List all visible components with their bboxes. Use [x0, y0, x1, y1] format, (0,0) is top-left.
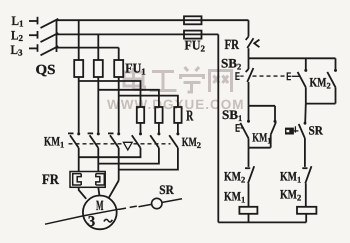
- contactor KM2 main contact 3: [169, 132, 179, 148]
- wire branch phase2 to resistor 2: [98, 90, 159, 107]
- node L2 terminal: [29, 31, 38, 39]
- 工: [152, 70, 174, 73]
- wire branch phase3 to resistor 3: [119, 96, 178, 107]
- wire KM1 pole2 down to FR: [97, 148, 99, 172]
- wire KM1 pole3 down past FR: [118, 148, 120, 181]
- wire branch phase1 to resistor 1: [79, 81, 141, 107]
- contactor KM1 main contact 2: [88, 132, 100, 148]
- motor M 3~: [83, 196, 117, 230]
- resistor R pole 2: [155, 107, 162, 123]
- resistor R pole 3: [174, 107, 181, 123]
- bus line L3: [57, 47, 119, 49]
- coil KM2: [297, 207, 316, 214]
- FR heater element 2: [96, 174, 105, 185]
- contactor KM1 main contact 1: [68, 132, 80, 148]
- switch QS: [41, 19, 59, 56]
- resistor R pole 1: [137, 107, 144, 123]
- button SB1 actuator E: [236, 125, 244, 132]
- fuse FU1 pole 3: [114, 60, 123, 77]
- svg-text:M: M: [96, 199, 103, 214]
- svg-text:QS: QS: [36, 63, 56, 78]
- wire KM2 aux join: [306, 103, 336, 105]
- wire to motor phase C: [108, 181, 119, 199]
- button SB1 NO contact: [240, 106, 250, 148]
- motor shaft line: [45, 209, 119, 224]
- svg-text:3: 3: [88, 214, 95, 230]
- wire KM2 pole2 crossover to phase B: [98, 148, 159, 164]
- button SB2 dashed linkage: [253, 75, 288, 77]
- fuse FU1 pole 1: [74, 60, 83, 77]
- contactor KM1 NC interlock contact: [302, 166, 311, 207]
- node L3 terminal: [29, 44, 38, 52]
- thermal relay FR NC contact: [246, 37, 260, 59]
- fuse FU2 pole 2: [184, 31, 202, 39]
- mechanical link dashed line KM1-KM2: [69, 143, 171, 145]
- wire SB1 branch node: [249, 105, 276, 107]
- 网: [210, 71, 232, 93]
- fuse FU2 pole 1: [184, 16, 202, 24]
- button SB2 actuator E left: [236, 73, 244, 80]
- svg-text:R: R: [186, 109, 193, 125]
- contactor KM1 auxiliary self-holding contact: [249, 106, 277, 148]
- contactor KM2 auxiliary NO contact: [327, 58, 337, 103]
- svg-text:SR: SR: [159, 182, 174, 197]
- bottom rail wire: [218, 221, 306, 223]
- wire down to SR contact: [304, 104, 307, 123]
- speed relay SR rotor line: [139, 199, 183, 207]
- wire L1 drop to FU1: [78, 20, 80, 60]
- FR heater element 1: [73, 174, 82, 185]
- control top row wire: [249, 57, 336, 59]
- svg-text:FR: FR: [42, 172, 59, 188]
- fuse FU1 pole 2: [94, 60, 103, 77]
- speed relay SR circle: [152, 198, 162, 208]
- wire KM1 pole1 down to FR: [78, 148, 80, 172]
- wire FR to motor phase A: [79, 187, 87, 199]
- shaft dashed coupling to SR: [119, 206, 137, 209]
- wire KM2 coil to rail: [305, 214, 307, 223]
- speed relay SR NO contact: [285, 122, 306, 167]
- wire KM2 pole3 crossover to phase C: [119, 148, 178, 170]
- wire L3 drop to FU1: [118, 48, 120, 60]
- button SB2 NO contact: [298, 58, 308, 103]
- contactor KM2 main contact 1: [132, 132, 142, 148]
- wire down to KM2 NC: [248, 148, 250, 167]
- wire KM2 pole1 crossover to phase A: [79, 148, 141, 157]
- watermark 电工学网: [124, 67, 232, 92]
- wire L2 drop to FU1: [97, 34, 99, 60]
- left control rail: [217, 34, 219, 222]
- coil KM1: [239, 207, 257, 214]
- bus line L1: [57, 19, 249, 21]
- linkage triangle marker: [123, 142, 132, 150]
- thermal relay FR box: [70, 172, 105, 188]
- wires resistors to KM2 contacts: [140, 123, 142, 133]
- contactor KM2 NC interlock contact: [245, 166, 254, 207]
- svg-text:SR: SR: [309, 123, 324, 137]
- bus line L2: [57, 33, 219, 35]
- node L1 terminal: [29, 17, 38, 25]
- wire FU1 outputs down to KM1 contacts: [78, 77, 80, 133]
- contactor KM2 main contact 2: [150, 132, 160, 148]
- wire KM1 coil to rail: [248, 214, 250, 223]
- wire L1 to FR contact: [248, 20, 250, 36]
- wire FR to motor phase B: [98, 187, 99, 195]
- contactor KM1 main contact 3: [108, 132, 120, 148]
- button SB2 NC contact: [246, 58, 254, 106]
- 电: [124, 72, 143, 86]
- svg-text:FR: FR: [225, 38, 240, 53]
- button SB2 actuator E right: [287, 73, 299, 80]
- 学: [185, 67, 189, 71]
